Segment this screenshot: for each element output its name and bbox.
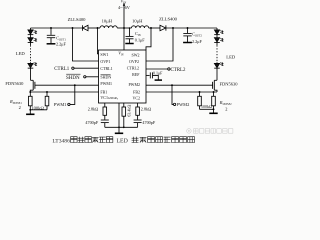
svg-text:2.8kΩ: 2.8kΩ xyxy=(141,106,151,111)
inductor L1 10uH xyxy=(100,26,117,28)
svg-text:100kΩ: 100kΩ xyxy=(201,104,212,109)
svg-text:0.1μF: 0.1μF xyxy=(153,71,163,76)
wire gate line Q1 to PWM1 pin xyxy=(35,84,99,86)
capacitor REF 0.1uF and ground xyxy=(146,72,162,80)
wire PWM2 gate line xyxy=(146,84,213,86)
svg-text:LED: LED xyxy=(117,138,128,144)
wire OVP2 to output rail 2 xyxy=(146,28,173,61)
resistor 2.8k (VC2) xyxy=(136,103,140,120)
terminal PWM1 xyxy=(68,85,75,105)
wire rail between L1 and VIN node xyxy=(117,27,131,29)
svg-text:2: 2 xyxy=(19,105,21,110)
svg-text:2.8kΩ: 2.8kΩ xyxy=(88,106,98,111)
wire GND pin drop xyxy=(118,103,120,127)
wire LED2 string cathode to Q2 drain xyxy=(216,68,218,80)
svg-text:REF: REF xyxy=(132,72,140,77)
resistor RSENSE1 xyxy=(29,92,33,110)
svg-text:FB1: FB1 xyxy=(100,89,107,94)
svg-text:2.2μF: 2.2μF xyxy=(192,39,202,44)
wire bottom node ch1 xyxy=(30,109,47,111)
wire top rail right (output 2 rail) xyxy=(166,27,217,29)
svg-text:2: 2 xyxy=(225,107,227,112)
svg-text:LT3486: LT3486 xyxy=(52,138,70,144)
svg-text:CTRL1: CTRL1 xyxy=(100,66,112,71)
junction dots xyxy=(29,27,214,128)
diode D1 ZLLS400 xyxy=(83,25,101,30)
ground ch1 xyxy=(26,110,34,115)
caption: LT3486 dual output boost LED driver application circuit xyxy=(52,138,127,144)
capacitor 4700pF (VC2) xyxy=(134,120,142,127)
svg-text:CTRL1: CTRL1 xyxy=(54,67,69,72)
LED string 2 (right) xyxy=(214,28,223,68)
capacitor COUT1 2.2uF xyxy=(47,28,56,44)
svg-text:SW1: SW1 xyxy=(100,52,108,57)
wire SW1 to rail xyxy=(98,28,99,54)
wire LED1 cathode to Q1 drain xyxy=(30,68,32,80)
svg-text:10μH: 10μH xyxy=(132,19,143,24)
resistor 100k (ch2) xyxy=(198,92,202,109)
wire bottom ground rail xyxy=(105,126,138,128)
resistor 100k (ch1) xyxy=(45,92,49,110)
terminal PWM2 xyxy=(172,85,176,105)
transistor Q2 FDN5630 xyxy=(213,80,217,92)
LED string 1 (left) xyxy=(28,28,37,68)
svg-text:VC2: VC2 xyxy=(132,96,140,101)
transistor Q1 FDN5630 xyxy=(30,80,35,92)
terminal CTRL2 xyxy=(146,68,170,70)
svg-text:LED: LED xyxy=(226,54,236,59)
svg-text:LED: LED xyxy=(16,51,26,56)
capacitor 4700pF (VC1) xyxy=(101,120,109,127)
svg-text:FDN5630: FDN5630 xyxy=(5,81,24,86)
svg-text:VC1GNDRT: VC1GNDRT xyxy=(100,95,118,101)
svg-text:FDN5630: FDN5630 xyxy=(220,82,239,87)
svg-text:ZLLS400: ZLLS400 xyxy=(68,17,87,22)
svg-text:4700pF: 4700pF xyxy=(142,120,155,125)
watermark xyxy=(187,129,192,134)
resistor RSENSE2 xyxy=(212,92,216,109)
ground center xyxy=(115,127,123,133)
ground ch2 xyxy=(209,109,217,113)
svg-text:PWM1: PWM1 xyxy=(54,102,67,107)
svg-text:100kΩ: 100kΩ xyxy=(31,105,44,110)
caption CJK glyph blocks xyxy=(71,137,195,143)
svg-text:2.2μF: 2.2μF xyxy=(56,41,66,46)
wire FB2 node line xyxy=(146,91,217,93)
svg-text:6V: 6V xyxy=(125,5,131,10)
svg-text:OVP1: OVP1 xyxy=(100,59,110,64)
terminal SHDN xyxy=(84,76,99,78)
capacitor COUT2 2.2uF xyxy=(183,28,192,43)
resistor 2.8k (VC1) xyxy=(103,103,107,120)
svg-text:SW2: SW2 xyxy=(132,52,140,57)
capacitor CIN 0.1uF xyxy=(125,28,133,44)
svg-text:10μH: 10μH xyxy=(102,19,113,24)
wire top rail left (output 1 rail) xyxy=(31,27,83,29)
wire SW2 to rail xyxy=(146,28,151,50)
diode D2 ZLLS400 xyxy=(160,25,166,30)
supply VIN arrow xyxy=(123,3,125,28)
wire rail L2 to diode D2 xyxy=(149,27,160,29)
svg-text:63.4kΩ: 63.4kΩ xyxy=(127,105,132,117)
svg-text:4~: 4~ xyxy=(118,5,123,10)
resistor RT 63.4k xyxy=(122,103,126,127)
svg-text:CTRL2: CTRL2 xyxy=(127,65,139,70)
svg-text:PWM1: PWM1 xyxy=(100,81,112,86)
wire bottom node ch2 xyxy=(200,108,214,110)
svg-text:CTRL2: CTRL2 xyxy=(171,68,186,73)
terminal CTRL1 xyxy=(72,67,99,69)
wire OVP1 to output rail xyxy=(73,28,99,61)
wire VIN pin drop xyxy=(123,28,125,50)
svg-text:ZLLS400: ZLLS400 xyxy=(159,17,178,22)
svg-text:SHDN: SHDN xyxy=(100,75,111,80)
IC U1 LT3486 box xyxy=(99,50,147,103)
svg-text:SHDN: SHDN xyxy=(66,76,80,81)
svg-text:4700pF: 4700pF xyxy=(85,120,98,125)
svg-text:PWM2: PWM2 xyxy=(128,82,140,87)
svg-text:0.1μF: 0.1μF xyxy=(135,38,145,43)
svg-text:OVP2: OVP2 xyxy=(129,59,139,64)
svg-text:PWM2: PWM2 xyxy=(177,102,190,107)
svg-text:FB2: FB2 xyxy=(133,90,140,95)
inductor L2 10uH xyxy=(132,26,149,28)
wire FB1 node line xyxy=(30,91,98,93)
label SHDN terminal xyxy=(66,74,81,81)
